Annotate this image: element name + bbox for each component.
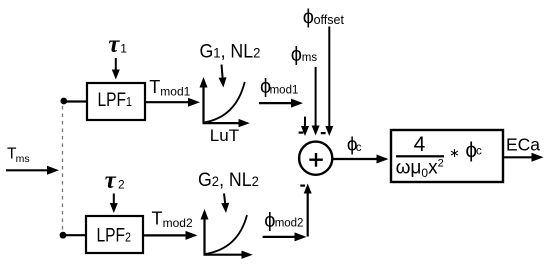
svg-text:ms: ms	[302, 52, 318, 64]
svg-text:T: T	[149, 77, 160, 97]
fraction bar	[396, 155, 444, 157]
wire output arrow ECa	[503, 153, 544, 162]
label phi mod1	[260, 76, 298, 98]
wire Tmod2 arrow LPF2 to graph	[143, 231, 198, 240]
block graph axes (bottom)	[201, 209, 253, 259]
wire dashed branch line	[62, 106, 64, 230]
label Tmod2	[152, 208, 193, 230]
svg-text:τ: τ	[108, 31, 120, 58]
wire phi mod2 horizontal arrow	[263, 232, 307, 241]
svg-text:∗: ∗	[449, 146, 459, 160]
label Tmod1	[149, 77, 190, 99]
wire Tms input arrow	[6, 166, 59, 175]
label fraction denominator omega mu0 x^2	[396, 158, 444, 181]
svg-text:ϕ: ϕ	[291, 44, 302, 66]
wire G1 pointer arrow	[219, 65, 227, 88]
svg-text:mod1: mod1	[270, 84, 299, 96]
wire node to LPF1	[64, 100, 87, 102]
svg-text:ϕ: ϕ	[303, 7, 314, 29]
svg-text:T: T	[152, 208, 163, 228]
label minus sign right of phi ms arrow	[321, 132, 326, 134]
svg-text:4: 4	[414, 133, 426, 156]
svg-text:G1, NL2: G1, NL2	[200, 40, 261, 62]
svg-text:2: 2	[118, 177, 125, 191]
curve exponential (bottom graph)	[205, 215, 247, 254]
svg-text:ωμ0x2: ωμ0x2	[396, 158, 444, 181]
svg-text:c: c	[356, 142, 362, 154]
wire phi mod1 short drop arrow into summer	[301, 117, 309, 136]
wire phi ms arrow into summer	[312, 67, 320, 136]
wire tau2 arrow into LPF2	[110, 194, 118, 214]
svg-text:mod2: mod2	[275, 218, 304, 230]
svg-text:τ: τ	[105, 167, 117, 194]
svg-text:mod1: mod1	[160, 84, 190, 98]
svg-text:G2, NL2: G2, NL2	[198, 168, 259, 190]
svg-text:mod2: mod2	[163, 216, 193, 230]
wire G2 pointer arrow	[221, 194, 229, 214]
wire phi mod1 horizontal arrow	[259, 99, 303, 108]
label phi c	[347, 135, 362, 156]
node bottom branch dot	[60, 232, 67, 239]
label plus sign in summer	[309, 153, 323, 167]
svg-text:ms: ms	[16, 153, 30, 165]
svg-text:LuT: LuT	[210, 126, 239, 145]
label phi mod2	[264, 210, 303, 232]
wire phi offset arrow into summer	[325, 27, 333, 137]
wire Tmod1 arrow LPF1 to LuT	[145, 98, 200, 107]
label phi ms	[291, 44, 318, 66]
block LPF1	[87, 83, 145, 120]
label asterisk phi c in box	[449, 139, 482, 162]
curve exponential (top graph)	[204, 82, 245, 123]
label minus sign below summer	[300, 185, 305, 187]
label G1 NL2	[200, 40, 261, 62]
block LPF2	[86, 216, 143, 253]
wire summer to formula box arrow	[333, 155, 389, 164]
svg-text:ECa: ECa	[506, 135, 540, 155]
node top branch dot	[60, 98, 67, 105]
label tau1	[108, 31, 127, 58]
label G2 NL2	[198, 168, 259, 190]
block formula box	[391, 130, 503, 182]
summing junction circle	[299, 142, 332, 175]
svg-text:c: c	[476, 146, 482, 158]
wire phi mod2 up arrow into summer	[304, 184, 312, 237]
label tau2	[105, 167, 125, 194]
svg-text:offset: offset	[314, 13, 345, 27]
label minus sign left of mod1 arrow	[299, 132, 304, 134]
svg-text:1: 1	[120, 41, 127, 55]
label Tms input	[7, 146, 30, 166]
wire node to LPF2	[63, 234, 86, 236]
wire tau1 arrow into LPF1	[112, 58, 120, 80]
label phi offset	[303, 7, 345, 29]
block LuT graph axes (top)	[200, 77, 250, 127]
